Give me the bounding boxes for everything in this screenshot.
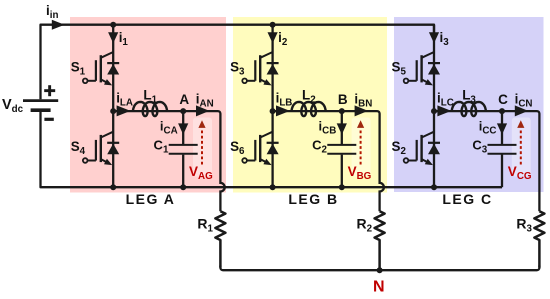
- wire node B to resistor R2 branch: [342, 111, 384, 211]
- inductor L2: [292, 102, 326, 116]
- node A junction: [180, 108, 186, 114]
- leg C shading region: [394, 17, 544, 192]
- current arrow iLB: [276, 105, 290, 116]
- wire node A to resistor R1 branch: [183, 111, 224, 211]
- junction leg C midpoint: [431, 108, 437, 114]
- voltage arrow VCG (dashed): [517, 120, 524, 164]
- junction leg A bottom rail: [110, 184, 116, 190]
- transistor S2 (IGBT with antiparallel diode): [404, 132, 440, 165]
- svg-text:C: C: [498, 92, 508, 107]
- highlight band behind VAG arrow: [193, 118, 212, 177]
- wire node A down to capacitor C1: [182, 111, 184, 144]
- svg-text:A: A: [179, 92, 189, 107]
- junction leg B midpoint: [270, 108, 276, 114]
- current arrow iCB: [337, 123, 347, 134]
- battery minus sign: [44, 118, 53, 121]
- leg A shading region: [70, 17, 226, 193]
- current arrow iAN: [196, 105, 209, 116]
- wire battery negative to bottom rail: [41, 112, 503, 187]
- current arrow i2: [268, 32, 278, 43]
- transistor S6 (IGBT with antiparallel diode): [242, 132, 278, 165]
- junction capacitor C2 / bottom rail: [339, 184, 345, 190]
- transistor S1 (IGBT with antiparallel diode): [83, 52, 119, 85]
- current arrow iLC: [437, 105, 451, 116]
- wire node C down to capacitor C3: [501, 111, 503, 144]
- inductor L3: [452, 102, 486, 116]
- node C junction: [499, 108, 505, 114]
- junction leg A midpoint: [110, 108, 116, 114]
- junction R2 / N rail: [377, 267, 383, 273]
- wire node C to resistor R3 branch: [502, 111, 539, 211]
- capacitor C3: [488, 145, 517, 154]
- voltage arrow VBG (dashed): [357, 120, 364, 164]
- svg-text:LEG A: LEG A: [126, 191, 176, 207]
- capacitor C1: [169, 145, 198, 154]
- wire neutral rail N: [220, 266, 539, 271]
- wire capacitor C1 to bottom rail: [182, 155, 184, 188]
- current arrow i_in: [52, 20, 65, 30]
- wire leg B midpoint to node B: [273, 110, 342, 112]
- current arrow i1: [108, 32, 118, 43]
- wire leg A midpoint to node A: [113, 110, 183, 112]
- resistor R2: [375, 211, 385, 267]
- junction leg B bottom rail: [270, 184, 276, 190]
- wire leg A vertical (switch leg): [112, 25, 114, 188]
- junction capacitor C1 / bottom rail: [180, 184, 186, 190]
- highlight band behind VBG arrow: [352, 118, 371, 177]
- current arrow iCA: [178, 123, 188, 134]
- leg B shading region: [233, 17, 387, 193]
- battery Vdc: [23, 101, 58, 111]
- resistor R3: [534, 211, 544, 267]
- current arrow i3: [429, 32, 439, 43]
- wire leg C vertical (switch leg): [433, 25, 435, 188]
- transistor S3 (IGBT with antiparallel diode): [242, 52, 278, 85]
- current arrow iBN: [355, 105, 368, 116]
- svg-text:N: N: [373, 278, 385, 294]
- wire leg C midpoint to node C: [434, 110, 502, 112]
- current arrow iLA: [117, 105, 131, 116]
- highlight band behind VCG arrow: [512, 118, 531, 177]
- wire node B down to capacitor C2: [341, 111, 343, 144]
- svg-text:LEG B: LEG B: [288, 191, 338, 207]
- resistor R1: [215, 211, 225, 267]
- current arrow iCC: [497, 123, 507, 134]
- transistor S4 (IGBT with antiparallel diode): [83, 132, 119, 165]
- wire leg B vertical (switch leg): [271, 25, 273, 188]
- svg-text:LEG C: LEG C: [442, 191, 492, 207]
- svg-text:B: B: [338, 92, 348, 107]
- battery plus sign: [44, 85, 55, 96]
- junction top rail / leg A: [110, 22, 116, 28]
- inductor L1: [133, 102, 167, 116]
- junction leg C bottom rail: [431, 184, 437, 190]
- current arrow iCN: [515, 105, 528, 116]
- transistor S5 (IGBT with antiparallel diode): [404, 52, 440, 85]
- voltage arrow VAG (dashed): [198, 120, 205, 164]
- wire top rail (Vdc+ to legs): [41, 25, 435, 100]
- node B junction: [339, 108, 345, 114]
- wire bottom rail end up to C3: [501, 154, 503, 187]
- capacitor C2: [327, 145, 356, 154]
- junction top rail / leg B: [270, 22, 276, 28]
- wire capacitor C2 to bottom rail: [341, 155, 343, 188]
